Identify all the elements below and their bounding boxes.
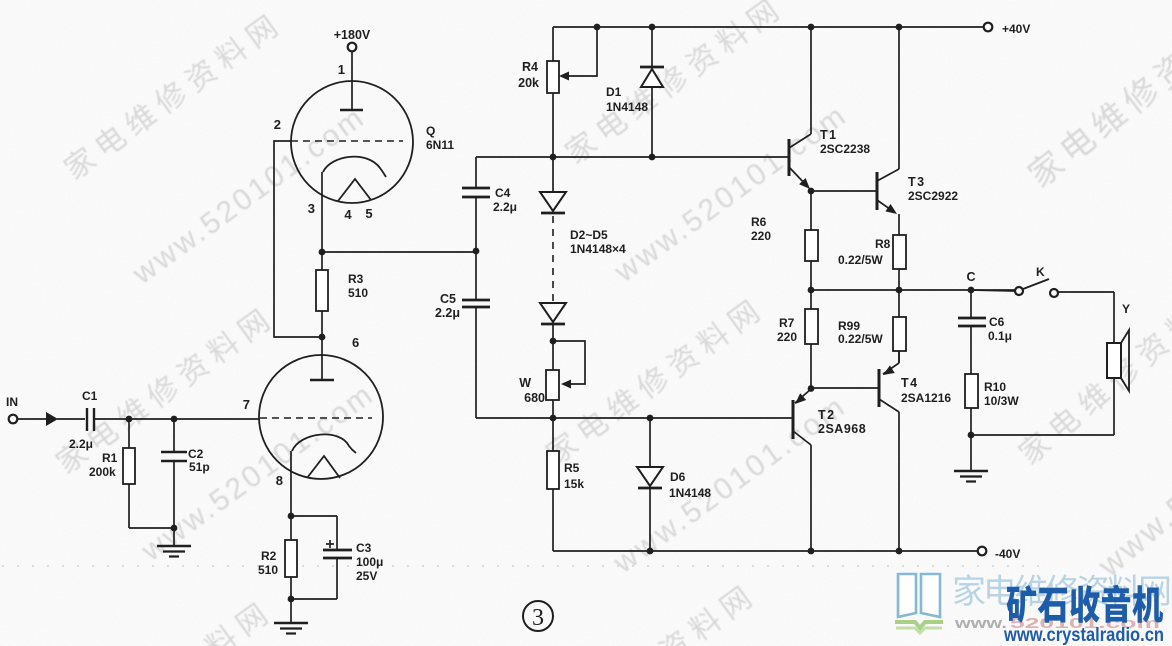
svg-text:D2~D5: D2~D5	[570, 228, 608, 242]
node 8 junction	[288, 513, 295, 520]
resistor R2	[290, 516, 292, 540]
node A	[126, 416, 133, 423]
svg-text:2.2μ: 2.2μ	[69, 437, 93, 451]
svg-text:15k: 15k	[564, 477, 584, 491]
wire	[129, 527, 175, 529]
node rail D1	[649, 24, 656, 31]
resistor R6	[810, 191, 812, 230]
wire row upper	[476, 156, 789, 158]
tube cathode arc	[323, 157, 386, 177]
tube cathode arc 2	[292, 434, 356, 453]
resistor R8	[893, 235, 906, 269]
op-amp U1 tube Q envelope	[291, 81, 413, 203]
svg-text:R6: R6	[751, 215, 767, 229]
diode D2	[552, 157, 554, 192]
node R2 bottom	[288, 596, 295, 603]
wire cathode lead 2	[290, 451, 292, 516]
node C	[968, 287, 975, 294]
diode D1	[651, 27, 653, 67]
capacitor C1	[86, 408, 88, 431]
wire	[1113, 378, 1115, 435]
capacitor C2	[173, 419, 175, 452]
node W top	[550, 338, 557, 345]
svg-text:Y: Y	[1122, 302, 1130, 316]
svg-text:C4: C4	[495, 186, 511, 200]
svg-text:4: 4	[344, 207, 352, 222]
svg-text:2.2μ: 2.2μ	[435, 306, 460, 320]
svg-text:www.: www.	[954, 615, 1007, 632]
wire	[1113, 292, 1115, 343]
diode D6	[649, 418, 651, 467]
potentiometer W 680	[553, 341, 585, 384]
wire	[17, 418, 46, 420]
wire	[475, 197, 477, 300]
wire plate lead	[351, 51, 353, 110]
node R10 bottom	[968, 432, 975, 439]
node rail R4wiper	[594, 24, 601, 31]
wire	[475, 307, 477, 418]
wire plate lead 2	[321, 337, 323, 380]
capacitor C3 electrolytic	[291, 515, 337, 517]
tube grid dashed	[291, 140, 403, 142]
svg-text:C3: C3	[356, 541, 372, 555]
wire top rail	[553, 26, 988, 28]
power -40V terminal	[978, 547, 987, 556]
tube heater	[338, 179, 371, 201]
svg-text:R7: R7	[779, 316, 795, 330]
svg-text:3: 3	[308, 201, 315, 216]
tube grid dashed 2	[260, 417, 372, 419]
wire T1e-T3b	[811, 190, 877, 192]
transistor T1 2SC2238	[788, 139, 791, 176]
svg-text:D6: D6	[670, 470, 686, 484]
wire row lower	[476, 417, 793, 419]
svg-text:25V: 25V	[356, 569, 377, 583]
node D2 top row	[550, 154, 557, 161]
transistor T2 2SA968	[792, 400, 795, 439]
svg-text:T1: T1	[820, 128, 838, 142]
wire	[57, 418, 85, 420]
svg-text:10/3W: 10/3W	[984, 394, 1019, 408]
svg-text:T4: T4	[901, 376, 919, 390]
diode D5	[540, 303, 566, 322]
svg-text:0.1μ: 0.1μ	[988, 329, 1012, 343]
capacitor C4	[462, 187, 490, 190]
svg-text:6: 6	[352, 335, 359, 350]
svg-text:R8: R8	[875, 237, 891, 251]
node IN terminal	[9, 415, 18, 424]
node rail D6	[647, 548, 654, 555]
svg-text:+40V: +40V	[1002, 22, 1030, 36]
svg-text:3: 3	[532, 605, 544, 631]
wire T2-T4 base	[811, 387, 879, 389]
svg-text:1N4148: 1N4148	[669, 486, 711, 500]
transistor T3 2SC2922	[876, 172, 879, 210]
scan artifact dotted line	[2, 565, 1040, 567]
node rail T2	[808, 548, 815, 555]
ground R2	[290, 599, 292, 622]
svg-text:2: 2	[274, 117, 281, 132]
svg-text:200k: 200k	[89, 465, 116, 479]
svg-text:C1: C1	[82, 389, 98, 403]
node W bottom row	[550, 415, 557, 422]
svg-text:1: 1	[338, 62, 345, 77]
svg-text:5: 5	[365, 206, 372, 221]
svg-text:C: C	[966, 270, 975, 284]
svg-text:R10: R10	[984, 380, 1006, 394]
resistor R4 pot	[552, 27, 554, 61]
tube heater 2	[307, 456, 340, 478]
svg-text:R99: R99	[838, 319, 860, 333]
logo blue text 矿石收音机	[1007, 585, 1163, 623]
logo book icon	[898, 574, 940, 617]
node mid R7	[808, 287, 815, 294]
svg-text:51p: 51p	[189, 460, 210, 474]
wire mid rail	[811, 289, 1015, 291]
svg-text:2SC2922: 2SC2922	[908, 189, 958, 203]
ground	[173, 528, 175, 545]
svg-text:C2: C2	[188, 447, 204, 461]
wire grid feedback	[274, 141, 322, 337]
node rail T4	[896, 548, 903, 555]
svg-text:D1: D1	[606, 85, 622, 99]
capacitor C6	[970, 290, 972, 318]
capacitor C5	[462, 299, 490, 302]
wire dashed D2-D5	[552, 216, 554, 301]
svg-text:0.22/5W: 0.22/5W	[838, 332, 883, 346]
svg-text:0.22/5W: 0.22/5W	[838, 253, 883, 267]
svg-text:-40V: -40V	[995, 547, 1020, 561]
wire C4-C5 chain top	[475, 157, 477, 188]
resistor R3	[321, 252, 323, 270]
svg-text:2SC2238: 2SC2238	[820, 142, 870, 156]
svg-text:510: 510	[258, 563, 278, 577]
wire	[95, 418, 259, 420]
svg-text:R2: R2	[261, 549, 277, 563]
logo light blue text 家电维修资料网	[954, 574, 1169, 606]
svg-text:680: 680	[524, 391, 545, 405]
page number 3 circled	[523, 601, 553, 631]
svg-text:IN: IN	[6, 395, 18, 409]
resistor R10	[965, 374, 978, 408]
node 6	[319, 334, 326, 341]
svg-text:Q: Q	[426, 124, 435, 138]
svg-text:R1: R1	[102, 451, 118, 465]
node mid R99	[896, 287, 903, 294]
node cathode R3	[319, 249, 326, 256]
wire cathode lead	[321, 172, 323, 252]
transistor T4 2SA1216	[878, 369, 881, 407]
node rail T1	[808, 24, 815, 31]
node C4-C5 mid	[473, 248, 480, 255]
svg-text:C5: C5	[440, 292, 456, 306]
svg-text:www.crystalradio.cn: www.crystalradio.cn	[1003, 624, 1164, 646]
svg-text:20k: 20k	[518, 76, 539, 90]
resistor R5	[552, 418, 554, 451]
svg-text:R3: R3	[348, 272, 364, 286]
svg-text:2SA968: 2SA968	[818, 422, 866, 436]
svg-text:1N4148×4: 1N4148×4	[570, 242, 626, 256]
tube anode plate 2	[310, 379, 334, 382]
tube envelope lower triode	[259, 355, 383, 479]
node D6 top row	[647, 415, 654, 422]
svg-text:510: 510	[348, 286, 368, 300]
svg-text:6N11: 6N11	[426, 138, 454, 152]
resistor R7	[810, 290, 812, 309]
svg-text:R5: R5	[564, 461, 580, 475]
wire bottom rail	[553, 550, 982, 552]
svg-text:8: 8	[276, 473, 283, 488]
svg-text:1N4148: 1N4148	[606, 100, 648, 114]
svg-text:+180V: +180V	[334, 28, 371, 42]
svg-text:220: 220	[777, 330, 797, 344]
svg-text:T2: T2	[818, 408, 836, 422]
switch K	[971, 290, 1015, 291]
svg-text:W: W	[519, 376, 531, 390]
svg-text:7: 7	[243, 397, 250, 412]
ground output	[970, 435, 972, 470]
node rail T3	[896, 24, 903, 31]
node B	[171, 416, 178, 423]
svg-text:2.2μ: 2.2μ	[493, 200, 517, 214]
svg-text:2SA1216: 2SA1216	[901, 391, 951, 405]
svg-text:T3: T3	[908, 175, 926, 189]
power +40V terminal	[984, 23, 993, 32]
svg-text:C6: C6	[989, 315, 1005, 329]
resistor R99	[898, 290, 900, 317]
tube anode plate	[340, 109, 363, 112]
wire to C4-C5 junction	[322, 251, 476, 253]
svg-text:R4: R4	[522, 60, 538, 74]
svg-text:100μ: 100μ	[356, 555, 383, 569]
resistor R1	[128, 419, 130, 448]
svg-text:K: K	[1036, 265, 1045, 279]
node D1 bottom row	[649, 154, 656, 161]
signal arrow	[46, 412, 58, 426]
node T1 emitter	[808, 188, 815, 195]
node C2-gnd junction	[171, 525, 178, 532]
svg-text:220: 220	[751, 229, 771, 243]
